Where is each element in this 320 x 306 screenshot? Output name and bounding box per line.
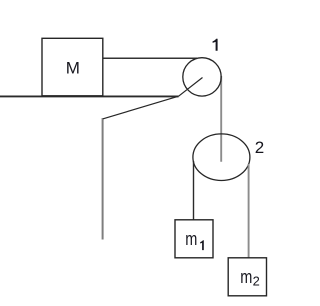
support rod segment B (table edge to pulley 1 axle)	[179, 78, 203, 97]
block m2	[228, 258, 266, 296]
block m1	[175, 220, 213, 258]
block M	[42, 38, 103, 96]
svg-text:m: m	[185, 228, 197, 249]
support rod segment A (post top to table edge)	[103, 96, 179, 119]
svg-text:2: 2	[253, 273, 260, 288]
svg-text:M: M	[66, 59, 80, 78]
pulley 1	[183, 58, 221, 96]
gray support post (vertical, below table corner)	[102, 118, 104, 240]
pulley 2	[193, 134, 250, 181]
svg-text:m: m	[240, 266, 252, 287]
table surface line	[0, 95, 179, 97]
gray string from pulley 2 to block m2	[248, 164, 250, 258]
label 1	[213, 39, 218, 51]
gray string from pulley 1 down to pulley 2 axle	[220, 76, 222, 162]
svg-text:2: 2	[255, 138, 264, 157]
string from pulley 2 to block m1	[193, 161, 195, 220]
string from block M to pulley 1	[103, 57, 197, 59]
label m1 subscript	[200, 240, 204, 250]
